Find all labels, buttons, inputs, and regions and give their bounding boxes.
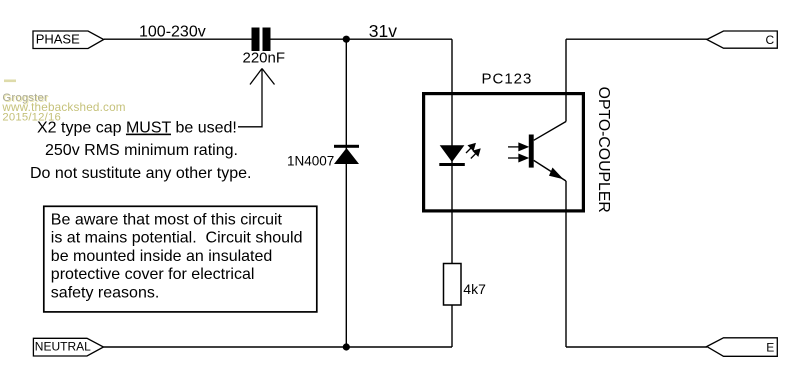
watermark Grogster: [1, 80, 125, 124]
svg-text:Be aware that most of this cir: Be aware that most of this circuit: [51, 212, 283, 229]
svg-text:250v RMS minimum rating.: 250v RMS minimum rating.: [45, 142, 238, 159]
capacitor C1 220nF: [252, 28, 271, 52]
diode D1 1N4007: [334, 145, 359, 164]
PHASE flag: [33, 31, 104, 49]
svg-text:PHASE: PHASE: [36, 31, 80, 46]
svg-text:100-230v: 100-230v: [139, 24, 206, 41]
svg-text:E: E: [766, 340, 774, 354]
collector wire: [534, 39, 707, 140]
wire phase top horizontal: [104, 38, 452, 40]
E flag: [707, 338, 778, 357]
opto-coupler U1 box: [424, 94, 584, 211]
svg-text:be mounted inside an insulated: be mounted inside an insulated: [51, 248, 272, 265]
svg-text:safety reasons.: safety reasons.: [51, 284, 160, 301]
svg-text:is at mains potential. Circui: is at mains potential. Circuit should: [51, 230, 303, 247]
emitter wire: [534, 160, 707, 347]
wire LED branch vertical: [451, 39, 453, 263]
svg-text:OPTO-COUPLER: OPTO-COUPLER: [595, 87, 612, 213]
leader arrow to capacitor: [238, 69, 275, 127]
svg-text:C: C: [766, 33, 775, 47]
svg-text:2015/12/16: 2015/12/16: [2, 112, 61, 124]
wire neutral bottom horizontal: [104, 346, 453, 348]
LED inside opto: [439, 145, 465, 166]
svg-text:X2 type cap MUST be used!: X2 type cap MUST be used!: [37, 120, 237, 137]
NEUTRAL flag: [33, 338, 103, 356]
warning text: [51, 212, 303, 302]
phototransistor Q1 base bar: [529, 135, 534, 168]
C flag: [707, 31, 778, 48]
light arrows into phototransistor base: [508, 143, 528, 161]
svg-text:protective cover for electrica: protective cover for electrical: [51, 266, 255, 283]
node junction 31v: [343, 36, 350, 43]
LED emission arrows: [466, 144, 480, 159]
wire resistor to neutral vertical: [451, 305, 453, 347]
svg-text:1N4007: 1N4007: [287, 153, 334, 168]
emitter arrowhead: [549, 168, 564, 180]
svg-text:31v: 31v: [369, 21, 397, 41]
svg-text:NEUTRAL: NEUTRAL: [35, 340, 91, 354]
svg-text:4k7: 4k7: [463, 281, 486, 297]
warning box: [44, 206, 317, 312]
node junction neutral: [343, 343, 350, 350]
wire diode branch vertical: [345, 39, 347, 347]
svg-text:220nF: 220nF: [243, 50, 286, 67]
resistor R1: [444, 264, 462, 306]
svg-text:Do not sustitute any other typ: Do not sustitute any other type.: [30, 165, 251, 182]
svg-text:PC123: PC123: [482, 70, 533, 87]
